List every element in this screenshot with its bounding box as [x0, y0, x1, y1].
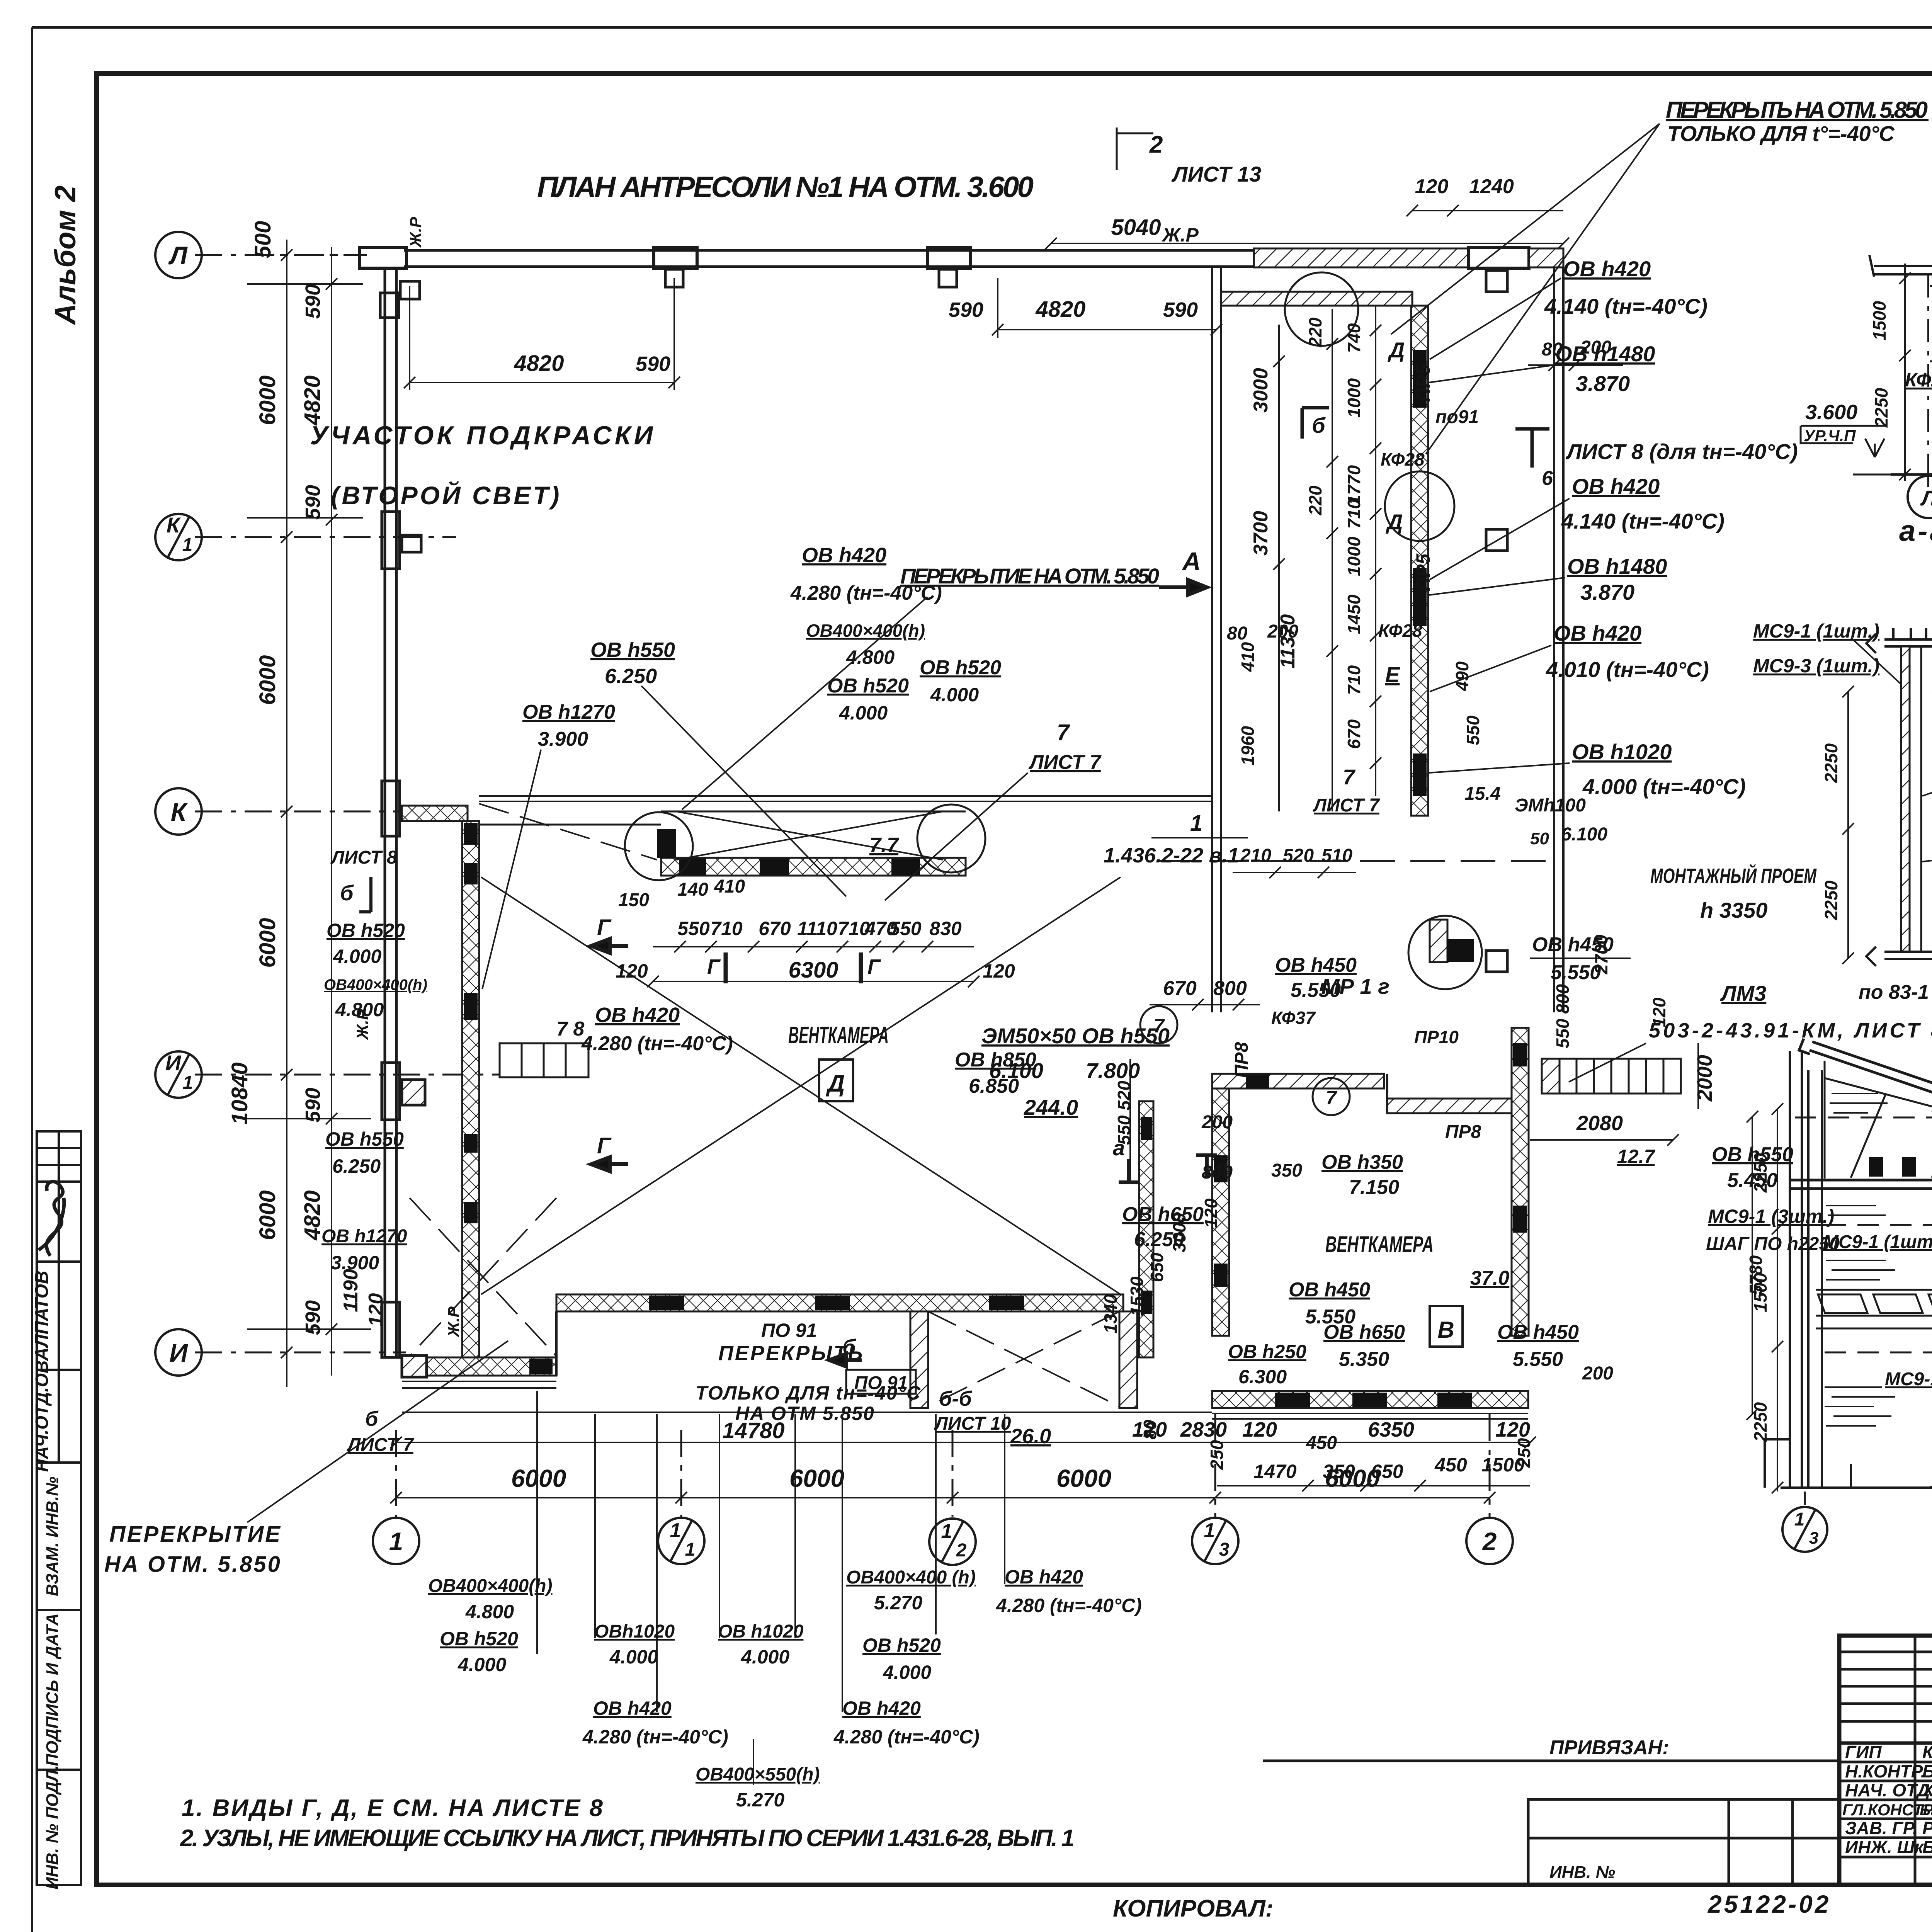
svg-text:1340: 1340 — [1100, 1294, 1121, 1333]
svg-text:ОВ h420: ОВ h420 — [1554, 621, 1641, 645]
svg-text:ЛИСТ 7: ЛИСТ 7 — [1313, 795, 1380, 816]
ribbed floor slabs — [1816, 1290, 1932, 1328]
white block on left wall top — [380, 293, 399, 318]
svg-text:1960: 1960 — [1238, 726, 1258, 765]
axis K/1 — [195, 536, 456, 538]
svg-text:200: 200 — [1201, 1112, 1233, 1133]
view B outer left column — [1790, 1051, 1802, 1488]
svg-text:1: 1 — [182, 535, 193, 555]
svg-text:КФ37: КФ37 — [1271, 1008, 1316, 1028]
svg-text:26.0: 26.0 — [1010, 1425, 1051, 1448]
svg-text:550: 550 — [677, 918, 710, 939]
view B bottom line — [1781, 1486, 1932, 1489]
svg-text:140: 140 — [677, 879, 708, 900]
svg-text:244.0: 244.0 — [1024, 1095, 1078, 1119]
svg-text:4.140 (tн=-40°С): 4.140 (tн=-40°С) — [1544, 294, 1708, 318]
svg-text:ИНВ. № ПОДЛ.: ИНВ. № ПОДЛ. — [43, 1765, 62, 1889]
stamp: signature/name cell — [37, 1182, 81, 1463]
balcony bottom wall hatched — [661, 858, 966, 876]
svg-text:ЛИСТ 13: ЛИСТ 13 — [1171, 162, 1261, 186]
svg-text:1: 1 — [389, 1527, 403, 1556]
svg-text:670: 670 — [1344, 719, 1364, 749]
svg-text:Г: Г — [597, 915, 612, 940]
svg-text:5.550: 5.550 — [1513, 1348, 1563, 1371]
svg-text:1: 1 — [1204, 1519, 1215, 1542]
svg-text:ОВ h450: ОВ h450 — [1497, 1321, 1579, 1344]
step in I wall — [555, 1311, 558, 1376]
svg-text:6000: 6000 — [1056, 1464, 1111, 1492]
svg-text:550: 550 — [1463, 715, 1483, 745]
panel — [1901, 646, 1910, 952]
corner column at I — [402, 1355, 427, 1377]
svg-text:ОВ h850: ОВ h850 — [955, 1049, 1036, 1071]
svg-text:550 800: 550 800 — [1553, 984, 1573, 1048]
svg-text:740: 740 — [1344, 323, 1364, 353]
bubble K/1 — [155, 514, 202, 560]
bubble 1/1 — [658, 1518, 704, 1564]
svg-text:Ж.Р: Ж.Р — [353, 1009, 371, 1040]
svg-text:2: 2 — [956, 1540, 967, 1561]
svg-text:4820: 4820 — [514, 351, 564, 376]
view A left axis edge — [1927, 274, 1929, 474]
wing inner top band — [1221, 292, 1412, 306]
detail circle wing bottom — [1408, 916, 1482, 989]
dims 2250x2 — [1842, 686, 1854, 964]
svg-text:ПР10: ПР10 — [1414, 1027, 1459, 1047]
svg-text:590: 590 — [301, 284, 325, 319]
room D left wall — [462, 821, 479, 1358]
svg-text:ПЕРЕКРЫТИЕ НА ОТМ. 5.850: ПЕРЕКРЫТИЕ НА ОТМ. 5.850 — [900, 564, 1159, 588]
signature rows — [1839, 1742, 1932, 1745]
dims left of view B — [1772, 1103, 1783, 1493]
svg-text:ПЕРЕКРЫТИЕ: ПЕРЕКРЫТИЕ — [109, 1522, 282, 1547]
svg-text:7.800: 7.800 — [1086, 1058, 1140, 1083]
svg-text:4.000: 4.000 — [883, 1662, 931, 1683]
svg-text:ЛИСТ 7: ЛИСТ 7 — [347, 1435, 414, 1455]
wing center wall — [1411, 306, 1428, 816]
svg-text:120: 120 — [616, 960, 648, 982]
svg-text:РУБЦОВА: РУБЦОВА — [1922, 1818, 1932, 1838]
svg-text:650: 650 — [1371, 1461, 1403, 1482]
svg-text:ОВ400×400(h): ОВ400×400(h) — [806, 621, 925, 641]
svg-text:ОВ h420: ОВ h420 — [802, 544, 886, 567]
room B bottom wall — [1212, 1391, 1528, 1408]
svg-text:1: 1 — [1794, 1509, 1805, 1530]
top small dim crossbars — [247, 283, 363, 285]
svg-text:3.900: 3.900 — [538, 728, 588, 750]
svg-text:5.350: 5.350 — [1339, 1348, 1389, 1371]
svg-text:6350: 6350 — [1368, 1418, 1414, 1441]
stripes lower room — [1825, 1387, 1895, 1426]
top-left dims under L wall — [404, 278, 1222, 390]
svg-text:ОВ h520: ОВ h520 — [327, 920, 405, 941]
footing left — [1765, 1439, 1851, 1488]
protrusion room diagonals — [928, 1311, 1119, 1406]
svg-text:ОВ h450: ОВ h450 — [1275, 954, 1357, 976]
svg-text:ПОДПИСЬ И ДАТА: ПОДПИСЬ И ДАТА — [43, 1613, 62, 1766]
svg-text:1770: 1770 — [1344, 465, 1364, 505]
svg-text:ПЛАН АНТРЕСОЛИ №1 НА ОТМ.: ПЛАН АНТРЕСОЛИ №1 НА ОТМ. 3.600 — [537, 171, 1034, 204]
svg-text:710: 710 — [710, 918, 743, 939]
svg-text:210: 210 — [1240, 845, 1271, 866]
left signature table verticals — [1914, 1636, 1917, 1885]
svg-text:3: 3 — [1809, 1529, 1818, 1548]
view B truss web — [1795, 1061, 1932, 1179]
svg-text:1240: 1240 — [1469, 175, 1514, 198]
svg-text:ЭМh100: ЭМh100 — [1515, 795, 1586, 816]
svg-text:ОВ h350: ОВ h350 — [1321, 1151, 1403, 1173]
svg-text:6000: 6000 — [511, 1464, 566, 1492]
svg-text:1.436.2-22 в.1: 1.436.2-22 в.1 — [1104, 844, 1239, 867]
dashed lower line — [1825, 1352, 1932, 1354]
svg-text:ХАТЕЕВА: ХАТЕЕВА — [1921, 1780, 1932, 1800]
svg-text:ОВ h520: ОВ h520 — [827, 675, 909, 697]
balcony X bracing — [479, 804, 943, 860]
svg-text:ОВ400×400 (h): ОВ400×400 (h) — [846, 1567, 976, 1588]
svg-text:ОВ h650: ОВ h650 — [1323, 1321, 1405, 1344]
svg-text:ОВ400×550(h): ОВ400×550(h) — [696, 1764, 820, 1785]
svg-text:350: 350 — [1271, 1160, 1302, 1181]
svg-text:150: 150 — [618, 890, 649, 910]
svg-text:1110: 1110 — [797, 918, 837, 939]
svg-text:590: 590 — [301, 1088, 325, 1122]
svg-text:590: 590 — [301, 1300, 325, 1335]
svg-text:Г: Г — [597, 1133, 612, 1158]
stripes upper room — [1826, 1206, 1895, 1280]
bubble K — [155, 788, 202, 835]
sheet13 callout — [1117, 128, 1153, 170]
svg-text:МС9-1 (1шт): МС9-1 (1шт) — [1885, 1369, 1932, 1389]
window fills room D left wall — [464, 823, 478, 845]
svg-text:Г: Г — [867, 955, 881, 978]
svg-text:450: 450 — [1306, 1433, 1337, 1453]
left stamp: upper grid — [37, 1131, 81, 1885]
room B top wall — [1212, 1074, 1384, 1088]
L-axis top wall — [404, 250, 1254, 267]
svg-text:120: 120 — [1201, 1198, 1221, 1228]
svg-text:670: 670 — [1163, 977, 1197, 1000]
stamp: vzam inv cell — [37, 1463, 81, 1610]
svg-text:МС9-1 (3шт.): МС9-1 (3шт.) — [1708, 1206, 1834, 1227]
ticks outer chain — [281, 249, 293, 261]
stamp: inv n podl cell — [37, 1770, 81, 1885]
svg-text:7: 7 — [1153, 1015, 1165, 1037]
svg-text:ПО 91: ПО 91 — [761, 1320, 817, 1341]
svg-text:1: 1 — [183, 1073, 193, 1093]
axis 1/2 — [952, 1430, 954, 1517]
view B main left column — [1808, 1070, 1822, 1488]
svg-text:3: 3 — [1219, 1539, 1230, 1560]
svg-text:УР.Ч.П: УР.Ч.П — [1804, 427, 1856, 445]
svg-text:6.250: 6.250 — [1134, 1228, 1184, 1251]
svg-text:4.000: 4.000 — [609, 1646, 658, 1668]
bubbles below view A — [1928, 386, 1932, 490]
stair block at I/1 — [500, 1043, 588, 1077]
svg-text:ПЕРЕКРЫТЬ НА ОТМ. 5.850: ПЕРЕКРЫТЬ НА ОТМ. 5.850 — [1666, 97, 1929, 123]
svg-text:710: 710 — [1344, 665, 1364, 695]
balcony left column black — [657, 829, 676, 858]
svg-text:ГИП: ГИП — [1845, 1742, 1882, 1762]
column block on L wall — [654, 248, 697, 268]
axis I/1 — [195, 1074, 500, 1076]
svg-text:1: 1 — [1190, 811, 1202, 836]
svg-text:7 8: 7 8 — [556, 1018, 584, 1040]
svg-text:ЛИСТ 8 (для tн=-40°С): ЛИСТ 8 (для tн=-40°С) — [1565, 439, 1798, 464]
svg-text:3.870: 3.870 — [1580, 580, 1634, 604]
svg-text:2: 2 — [1482, 1527, 1497, 1556]
svg-text:Е: Е — [1385, 662, 1400, 687]
svg-text:7: 7 — [1326, 1087, 1337, 1109]
svg-text:Ж.Р: Ж.Р — [444, 1306, 463, 1338]
svg-text:6.250: 6.250 — [605, 665, 657, 688]
svg-text:3700: 3700 — [1250, 511, 1272, 556]
svg-text:710: 710 — [1344, 499, 1364, 529]
svg-text:по 83-1: по 83-1 — [1859, 981, 1929, 1003]
svg-text:ЛИСТ 10: ЛИСТ 10 — [934, 1413, 1011, 1434]
thin top rows — [1839, 1651, 1932, 1653]
svg-text:25122-02: 25122-02 — [1708, 1890, 1831, 1918]
svg-text:670: 670 — [759, 918, 791, 939]
svg-text:5.270: 5.270 — [736, 1789, 784, 1811]
detail circle mid wing — [1385, 471, 1454, 541]
svg-text:5.270: 5.270 — [874, 1592, 922, 1614]
svg-text:Альбом 2: Альбом 2 — [49, 185, 82, 325]
protrusion room walls — [910, 1311, 928, 1408]
svg-text:7: 7 — [1057, 720, 1070, 745]
svg-text:ВЗАМ. ИНВ.№: ВЗАМ. ИНВ.№ — [43, 1476, 62, 1596]
hatched top wall right part — [1254, 248, 1468, 267]
floor edge line at K — [479, 796, 1212, 801]
axis L — [195, 254, 367, 256]
svg-text:6000: 6000 — [255, 918, 280, 968]
svg-text:520: 520 — [1283, 845, 1314, 866]
svg-text:120: 120 — [1242, 1418, 1277, 1441]
svg-text:К: К — [171, 798, 188, 826]
svg-text:ОВ h420: ОВ h420 — [1563, 257, 1651, 281]
svg-text:2250: 2250 — [1750, 1153, 1770, 1193]
svg-text:б-б: б-б — [939, 1387, 972, 1410]
wing right wall — [1554, 268, 1563, 1012]
svg-text:а-а: а-а — [1899, 515, 1932, 548]
svg-text:6.100: 6.100 — [1561, 824, 1607, 845]
svg-text:ШАГ ПО h2250: ШАГ ПО h2250 — [1706, 1234, 1840, 1254]
svg-text:220: 220 — [1305, 317, 1325, 347]
svg-text:1: 1 — [670, 1519, 681, 1542]
svg-text:Ж.Р: Ж.Р — [406, 216, 425, 248]
svg-text:4.000: 4.000 — [333, 946, 381, 967]
svg-text:НАЧ.ОТД.ОВ: НАЧ.ОТД.ОВ — [32, 1361, 52, 1472]
svg-text:2700: 2700 — [1591, 934, 1611, 975]
svg-text:(ВТОРОЙ СВЕТ): (ВТОРОЙ СВЕТ) — [331, 481, 561, 510]
svg-text:37.0: 37.0 — [1470, 1267, 1509, 1289]
svg-text:4.800: 4.800 — [846, 646, 895, 668]
svg-text:350: 350 — [1323, 1461, 1355, 1482]
bubble I — [155, 1329, 202, 1376]
svg-text:ОВ h1020: ОВ h1020 — [718, 1621, 804, 1642]
white blocks on left wall — [382, 512, 400, 569]
axis MR1t dashed — [1159, 860, 1561, 862]
svg-text:2250: 2250 — [1821, 880, 1841, 920]
svg-text:ИНЖ. Шк: ИНЖ. Шк — [1845, 1837, 1925, 1857]
svg-text:А: А — [1182, 547, 1201, 575]
svg-text:К: К — [167, 513, 181, 537]
svg-text:ТОЛЬКО ДЛЯ t°=-40°С: ТОЛЬКО ДЛЯ t°=-40°С — [1667, 121, 1895, 146]
svg-text:4.000: 4.000 — [741, 1646, 789, 1668]
svg-text:120: 120 — [1495, 1418, 1530, 1441]
clips above beam — [1869, 1157, 1883, 1177]
column tab top — [400, 281, 420, 299]
svg-text:ЛИСТ 8: ЛИСТ 8 — [330, 847, 397, 868]
svg-text:ОВ h550: ОВ h550 — [590, 638, 675, 662]
svg-text:ЗАВ. ГР.: ЗАВ. ГР. — [1845, 1818, 1918, 1838]
svg-text:4.010 (tн=-40°С): 4.010 (tн=-40°С) — [1546, 657, 1709, 682]
svg-text:ОВ h1020: ОВ h1020 — [1572, 740, 1672, 764]
svg-text:830: 830 — [929, 918, 962, 939]
K-axis wall band — [402, 806, 468, 821]
stamp: podpis i data cell — [37, 1610, 81, 1770]
svg-text:1. ВИДЫ Г, Д, Е СМ. НА Л: 1. ВИДЫ Г, Д, Е СМ. НА ЛИСТЕ 8 — [182, 1795, 603, 1821]
bottom edge lines — [402, 1381, 1212, 1412]
svg-text:КФ28: КФ28 — [1381, 449, 1425, 469]
svg-text:4820: 4820 — [1035, 297, 1085, 322]
column tab at K/1 — [402, 535, 421, 552]
balcony strip with X bracing — [479, 811, 966, 825]
svg-text:ОВ h1480: ОВ h1480 — [1567, 554, 1667, 578]
ticks inner chain — [326, 278, 337, 290]
svg-text:НА ОТМ. 5.850: НА ОТМ. 5.850 — [104, 1552, 282, 1577]
svg-text:БЕСКОРОВАЙНЫЙ: БЕСКОРОВАЙНЫЙ — [1920, 1801, 1932, 1819]
svg-text:МС9-1 (1шт.): МС9-1 (1шт.) — [1823, 1232, 1932, 1252]
svg-text:3.870: 3.870 — [1576, 371, 1630, 396]
svg-text:ОВ h420: ОВ h420 — [593, 1697, 672, 1719]
PO 91 box — [846, 1370, 916, 1394]
bubble 1/3 — [1192, 1518, 1238, 1564]
svg-text:КФ28: КФ28 — [1378, 621, 1422, 641]
column tab at I/1 — [402, 1080, 425, 1105]
svg-text:15.4: 15.4 — [1464, 784, 1500, 804]
svg-text:4.000: 4.000 — [930, 684, 979, 706]
svg-text:АЛПАТОВ: АЛПАТОВ — [32, 1270, 52, 1361]
svg-text:6000: 6000 — [255, 1190, 280, 1240]
bubble 1/2 — [929, 1519, 976, 1565]
privyazan table — [1263, 1761, 1839, 1885]
svg-text:ОВ400×400(h): ОВ400×400(h) — [428, 1576, 553, 1596]
room B left wall — [1212, 1088, 1229, 1336]
svg-text:УЧАСТОК ПОДКРАСКИ: УЧАСТОК ПОДКРАСКИ — [310, 421, 656, 450]
svg-text:КОПИРОВАЛ:: КОПИРОВАЛ: — [1113, 1895, 1273, 1922]
view A bottom line — [1891, 473, 1932, 476]
room D box letter — [819, 1060, 853, 1101]
svg-text:ОВ h650: ОВ h650 — [1122, 1203, 1204, 1226]
svg-text:КФ28: КФ28 — [1905, 369, 1932, 391]
svg-text:ОВ400×400(h): ОВ400×400(h) — [324, 976, 427, 993]
stair dim 2000 — [1697, 1043, 1699, 1109]
svg-text:650: 650 — [1147, 1252, 1167, 1282]
svg-text:120: 120 — [1415, 175, 1449, 198]
svg-text:ОВ h420: ОВ h420 — [1572, 474, 1660, 498]
svg-text:ОВ h520: ОВ h520 — [920, 656, 1001, 679]
view B beam 3.600 level — [1790, 1180, 1932, 1189]
axis 2 — [1489, 1414, 1491, 1517]
bubble 2 — [1466, 1518, 1513, 1564]
svg-text:Л: Л — [168, 241, 188, 270]
svg-text:250: 250 — [1207, 1440, 1227, 1470]
svg-text:И: И — [165, 1051, 182, 1075]
svg-text:КОРОСТЕЛЕВ: КОРОСТЕЛЕВ — [1922, 1742, 1932, 1762]
svg-text:ЛИСТ 7: ЛИСТ 7 — [1028, 751, 1102, 774]
svg-text:2080: 2080 — [1576, 1112, 1623, 1135]
svg-text:7.150: 7.150 — [1349, 1176, 1399, 1199]
corridor wall left of room B — [1139, 1101, 1153, 1357]
svg-text:1: 1 — [941, 1520, 952, 1543]
axis 1/1 — [680, 1430, 682, 1517]
svg-text:ОВ h420: ОВ h420 — [842, 1697, 921, 1719]
svg-text:ОВ h550: ОВ h550 — [325, 1128, 404, 1150]
svg-text:ОВh1020: ОВh1020 — [594, 1621, 675, 1642]
svg-text:500: 500 — [250, 221, 276, 259]
svg-text:590: 590 — [301, 485, 325, 520]
svg-text:В: В — [1437, 1317, 1454, 1343]
svg-text:2830: 2830 — [1180, 1418, 1227, 1441]
svg-text:6.250: 6.250 — [332, 1155, 381, 1177]
svg-text:1: 1 — [685, 1539, 696, 1560]
svg-text:1470: 1470 — [1253, 1461, 1296, 1482]
svg-text:4.280 (tн=-40°С): 4.280 (tн=-40°С) — [581, 1032, 733, 1055]
svg-text:4.280 (tн=-40°С): 4.280 (tн=-40°С) — [582, 1726, 728, 1748]
svg-text:h 3350: h 3350 — [1700, 898, 1767, 922]
svg-text:4.280 (tн=-40°С): 4.280 (tн=-40°С) — [833, 1726, 980, 1748]
svg-text:ПР8: ПР8 — [1445, 1122, 1481, 1142]
svg-text:12.7: 12.7 — [1617, 1146, 1656, 1167]
svg-text:200: 200 — [1582, 1363, 1613, 1384]
svg-text:ВЕНТКАМЕРА: ВЕНТКАМЕРА — [1325, 1232, 1434, 1257]
svg-text:4.140 (tн=-40°С): 4.140 (tн=-40°С) — [1561, 509, 1725, 533]
svg-text:1000: 1000 — [1344, 536, 1364, 576]
detail circle wing top — [1285, 272, 1358, 346]
svg-text:2250: 2250 — [1871, 388, 1891, 428]
svg-text:2250: 2250 — [1750, 1402, 1770, 1442]
svg-text:2250: 2250 — [1821, 743, 1841, 783]
top cap — [1866, 628, 1932, 653]
svg-text:И: И — [169, 1338, 188, 1367]
svg-text:2000: 2000 — [1693, 1055, 1716, 1102]
svg-text:410: 410 — [1238, 642, 1258, 672]
window fills wing center wall — [1413, 350, 1427, 408]
svg-text:МС9-1 (1шт.): МС9-1 (1шт.) — [1753, 620, 1879, 642]
view A dashed lines — [1930, 286, 1932, 361]
svg-text:4.000: 4.000 — [457, 1654, 506, 1675]
view B roof slab — [1799, 1039, 1932, 1147]
column tabs on wing right wall — [1486, 270, 1507, 292]
svg-text:1500: 1500 — [1481, 1454, 1524, 1476]
svg-text:3.900: 3.900 — [331, 1252, 379, 1274]
svg-text:ПРИВЯЗАН:: ПРИВЯЗАН: — [1549, 1736, 1669, 1759]
bubble 1 — [373, 1518, 419, 1564]
bubble I/1 — [155, 1051, 202, 1098]
black opening fills — [679, 859, 706, 875]
axis 1/3 — [1214, 1414, 1216, 1517]
svg-text:2: 2 — [1149, 131, 1163, 158]
svg-text:590: 590 — [1163, 298, 1198, 321]
svg-text:ГЛ.КОНСТР: ГЛ.КОНСТР — [1842, 1801, 1932, 1819]
signature squiggle — [39, 1182, 64, 1256]
svg-text:ОВ h520: ОВ h520 — [440, 1628, 518, 1650]
svg-text:6.300: 6.300 — [1238, 1366, 1287, 1388]
svg-text:550 520: 550 520 — [1114, 1080, 1134, 1145]
svg-text:Д: Д — [1388, 338, 1405, 362]
svg-text:б: б — [1312, 413, 1326, 437]
svg-text:ВЕНТКАМЕРА: ВЕНТКАМЕРА — [788, 1022, 889, 1049]
